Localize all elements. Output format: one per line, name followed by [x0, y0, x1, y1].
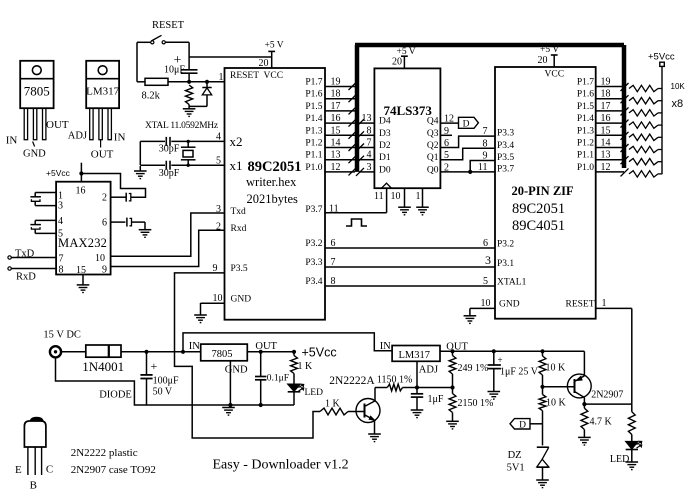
bus wire (thick) vertical left at x=357 — [355, 45, 360, 172]
svg-text:P3.1: P3.1 — [497, 259, 514, 269]
svg-text:4: 4 — [216, 132, 221, 143]
svg-text:74LS373: 74LS373 — [384, 103, 433, 118]
svg-text:ADJ: ADJ — [68, 130, 87, 141]
svg-text:RxD: RxD — [16, 272, 36, 283]
ground rail wire — [230, 404, 294, 406]
capacitor 0.1uF — [260, 352, 262, 377]
svg-text:P1.0: P1.0 — [577, 163, 594, 173]
svg-text:P1.6: P1.6 — [577, 90, 594, 100]
svg-text:P1.3: P1.3 — [305, 126, 322, 136]
svg-text:VCC: VCC — [264, 71, 284, 81]
wire xtal left leg — [139, 141, 141, 165]
wire Q2 to ZIF pin 7 (P3.3) — [440, 136, 495, 147]
svg-text:Q0: Q0 — [427, 165, 439, 175]
svg-text:Rxd: Rxd — [231, 224, 247, 234]
resistor 10K #2 (pull-up) — [629, 98, 658, 104]
wire reset loop left — [136, 42, 138, 82]
svg-text:OUT: OUT — [255, 341, 277, 352]
wire Q0 to ZIF pin 11 (P3.7) — [440, 171, 495, 173]
wire return path (0V) from jack — [56, 357, 231, 405]
bus wire (thick) horizontal top — [355, 43, 624, 48]
ground (reset) — [183, 108, 196, 110]
svg-text:11: 11 — [478, 162, 488, 173]
svg-text:Q2: Q2 — [427, 141, 439, 151]
svg-text:DZ: DZ — [508, 450, 522, 461]
resistor 2150 1% — [449, 394, 456, 413]
wire ADJ node — [417, 387, 453, 389]
DC input jack — [50, 346, 61, 357]
wire zener column — [542, 411, 544, 446]
svg-text:2: 2 — [102, 193, 107, 204]
svg-text:LED: LED — [610, 454, 629, 465]
svg-text:7805: 7805 — [24, 84, 50, 99]
svg-text:1μF: 1μF — [428, 394, 444, 405]
wire pull-up rail vertical — [661, 66, 663, 174]
svg-text:P1.2: P1.2 — [305, 139, 322, 149]
svg-text:P3.4: P3.4 — [305, 277, 322, 287]
svg-text:RESET: RESET — [566, 300, 595, 310]
svg-text:LM317: LM317 — [399, 350, 431, 361]
svg-text:C: C — [46, 464, 53, 476]
svg-text:89C4051: 89C4051 — [512, 218, 565, 234]
svg-text:DIODE: DIODE — [99, 390, 132, 401]
svg-text:x1: x1 — [230, 158, 243, 173]
svg-text:2N2222A: 2N2222A — [329, 375, 375, 387]
svg-text:D4: D4 — [379, 117, 391, 127]
svg-text:IN: IN — [6, 134, 18, 146]
crystal 11.0592MHz — [187, 141, 189, 147]
svg-text:P3.7: P3.7 — [305, 205, 322, 215]
net tag D (VPP control from 74LS373) — [510, 419, 530, 429]
svg-text:30pF: 30pF — [159, 144, 180, 155]
svg-text:Q4: Q4 — [427, 117, 439, 127]
regulator package LM317 (TO-220 drawing) — [86, 61, 119, 108]
svg-text:P1.5: P1.5 — [305, 102, 322, 112]
svg-text:6: 6 — [102, 218, 107, 229]
junction node reset — [187, 80, 191, 84]
resistor 10K #5 (pull-up) — [629, 134, 658, 140]
svg-text:11: 11 — [374, 191, 384, 202]
LED (programming indicator) — [626, 442, 638, 450]
wire +5V branch to VCC pin 20 — [189, 56, 272, 58]
resistor (box) in series with reset pin — [137, 81, 145, 83]
svg-text:P3.3: P3.3 — [497, 129, 514, 139]
wire pin16 power stub — [80, 163, 82, 182]
resistor 10 K (upper) — [542, 351, 544, 356]
capacitor 30pF (bottom) — [165, 161, 167, 170]
svg-text:100μF: 100μF — [153, 376, 179, 387]
svg-text:MAX232: MAX232 — [58, 236, 107, 250]
svg-text:P3.2: P3.2 — [497, 240, 514, 250]
svg-text:P1.3: P1.3 — [577, 126, 594, 136]
wire to 2N2222A collector — [374, 388, 376, 401]
svg-text:2N2222 plastic: 2N2222 plastic — [71, 447, 138, 459]
svg-text:Q1: Q1 — [427, 153, 439, 163]
ground (2N2222A) — [368, 433, 381, 435]
svg-text:1μF 25 V: 1μF 25 V — [500, 367, 539, 378]
wire branch to ZIF pin 9 (P3.5) — [470, 161, 495, 172]
svg-text:8: 8 — [483, 138, 488, 149]
svg-text:Q3: Q3 — [427, 129, 439, 139]
resistor 10K #1 (pull-up) — [629, 85, 658, 91]
svg-text:GND: GND — [499, 300, 520, 310]
svg-text:E: E — [15, 464, 22, 476]
resistor 10K #4 (pull-up) — [629, 122, 658, 128]
svg-text:Easy - Downloader v1.2: Easy - Downloader v1.2 — [213, 458, 349, 473]
wire base 2N2907 — [543, 386, 575, 388]
svg-text:GND: GND — [225, 365, 248, 376]
wire x2 pin 4 — [140, 140, 165, 142]
bus wire (thick) vertical right at x=624 — [622, 45, 627, 168]
op-amp: none; IC U1 89C2051 box — [225, 68, 326, 320]
ground (1uF ADJ) — [411, 409, 424, 411]
wire ZIF GND to ground — [470, 307, 495, 309]
wire 2N2222A emitter to ground — [374, 420, 376, 434]
svg-text:Txd: Txd — [231, 207, 247, 217]
svg-text:15 V DC: 15 V DC — [43, 330, 81, 341]
svg-text:9: 9 — [483, 151, 488, 162]
resistor 10K #8 (pull-up) — [629, 171, 658, 177]
pin 4/5 loop capacitor (MAX232) — [35, 219, 56, 221]
clock triangle (U2 latch enable) — [382, 183, 392, 188]
resistor 10K #3 (pull-up) — [629, 110, 658, 116]
svg-text:VCC: VCC — [545, 70, 565, 80]
wire Q1 to ZIF pin 8 (P3.4) — [440, 148, 495, 159]
svg-text:249 1%: 249 1% — [458, 363, 489, 374]
regulator package 7805 (TO-220 drawing) — [20, 61, 53, 108]
svg-text:IN: IN — [380, 341, 391, 352]
svg-text:B: B — [30, 480, 37, 492]
svg-text:LM317: LM317 — [86, 86, 120, 98]
ground (LED2) — [626, 461, 639, 463]
wire jack to diode — [62, 351, 86, 353]
wire diode to regulators — [121, 351, 201, 353]
svg-text:50 V: 50 V — [153, 387, 173, 398]
wire 7805 OUT to +5Vcc node — [247, 351, 294, 353]
svg-text:OUT: OUT — [46, 119, 69, 131]
svg-text:1N4001: 1N4001 — [82, 359, 124, 374]
svg-text:P1.5: P1.5 — [577, 102, 594, 112]
wire switch to cap — [188, 42, 190, 70]
svg-text:RESET: RESET — [152, 20, 185, 31]
svg-text:LED: LED — [305, 388, 324, 398]
svg-text:P1.7: P1.7 — [577, 78, 594, 88]
net tag D (to VPP control) — [459, 117, 479, 128]
svg-text:10: 10 — [481, 298, 491, 309]
wire +5Vcc to pin2 capacitor — [81, 174, 145, 198]
ground (xtal) — [139, 166, 141, 171]
switch RESET (push button) — [137, 41, 151, 43]
svg-text:2N2907: 2N2907 — [591, 390, 623, 401]
svg-text:1 K: 1 K — [325, 399, 341, 410]
svg-text:0.1μF: 0.1μF — [267, 374, 289, 384]
wire ADJ pin — [416, 361, 418, 387]
wire ZIF RESET to transistor collector node — [596, 307, 632, 309]
IC 20-PIN ZIF socket box — [495, 67, 596, 319]
svg-text:7: 7 — [59, 254, 64, 265]
svg-text:x8: x8 — [672, 98, 684, 110]
svg-text:P3.5: P3.5 — [497, 153, 514, 163]
resistor 10K #6 (pull-up) — [629, 146, 658, 152]
svg-text:1: 1 — [219, 72, 224, 83]
svg-text:8: 8 — [59, 265, 64, 276]
svg-text:+5Vcc: +5Vcc — [302, 346, 337, 360]
resistor 1K (LED series) — [293, 352, 295, 356]
wire U1 P3.5 to 2N2222 base resistor — [175, 273, 321, 438]
svg-text:5: 5 — [216, 155, 221, 166]
LED (power indicator) — [293, 374, 295, 385]
svg-text:16: 16 — [76, 186, 86, 197]
capacitor (MAX232 pin6) with ground — [111, 221, 126, 223]
svg-text:P1.4: P1.4 — [305, 114, 322, 124]
svg-text:20: 20 — [259, 58, 269, 69]
junction on Q0 wire — [468, 170, 472, 174]
svg-text:OUT: OUT — [91, 149, 114, 161]
resistor 10 K (lower) — [539, 395, 546, 411]
svg-text:10K: 10K — [671, 82, 686, 91]
label OUT (LM317) — [100, 140, 102, 148]
svg-text:P1.7: P1.7 — [305, 78, 322, 88]
svg-text:+5 V: +5 V — [265, 41, 284, 51]
svg-text:RESET: RESET — [230, 71, 259, 81]
svg-text:3: 3 — [58, 201, 63, 212]
svg-text:20: 20 — [392, 57, 402, 68]
ground (U1) — [200, 303, 202, 315]
svg-text:XTAL1: XTAL1 — [497, 278, 527, 288]
ground (main rail) — [222, 407, 235, 409]
ground (2150) — [446, 420, 459, 422]
svg-text:+: + — [151, 359, 158, 373]
svg-text:89C2051: 89C2051 — [512, 201, 565, 217]
svg-text:2021bytes: 2021bytes — [247, 192, 299, 206]
wire P3.7 to 74LS373 pin 11 — [325, 212, 387, 214]
svg-text:9: 9 — [102, 265, 107, 276]
IC U2 74LS373 box — [374, 68, 440, 188]
svg-text:15: 15 — [76, 265, 86, 276]
svg-text:20: 20 — [538, 55, 548, 66]
wire 15V rail up to LM317 — [183, 333, 392, 352]
svg-text:writer.hex: writer.hex — [246, 175, 297, 189]
svg-text:ADJ: ADJ — [419, 365, 438, 376]
svg-text:P3.7: P3.7 — [497, 164, 514, 174]
svg-text:10: 10 — [391, 191, 401, 202]
svg-text:30pF: 30pF — [159, 168, 180, 179]
resistor 249 1% — [452, 351, 454, 355]
wire Q3 stub (pin 9) — [440, 134, 452, 136]
svg-text:1: 1 — [602, 298, 607, 309]
svg-text:IN: IN — [114, 132, 126, 144]
wire Q4 to net tag D — [440, 122, 458, 124]
svg-text:D0: D0 — [379, 165, 391, 175]
svg-text:P1.4: P1.4 — [577, 114, 594, 124]
ground (ZIF) — [469, 308, 471, 315]
resistor 4.7 K — [581, 408, 588, 429]
svg-text:5V1: 5V1 — [507, 463, 525, 474]
svg-text:2150 1%: 2150 1% — [458, 398, 494, 409]
svg-text:IN: IN — [189, 341, 200, 352]
svg-text:P1.0: P1.0 — [305, 163, 322, 173]
svg-text:4: 4 — [58, 216, 63, 227]
svg-text:D: D — [519, 421, 526, 431]
diode 1N4001 (box style) — [86, 345, 121, 357]
svg-text:P3.4: P3.4 — [497, 141, 514, 151]
svg-text:1 K: 1 K — [298, 361, 314, 372]
svg-text:7: 7 — [483, 126, 488, 137]
svg-text:P1.1: P1.1 — [577, 151, 594, 161]
wire x1 pin 5 — [140, 164, 165, 166]
svg-text:P3.3: P3.3 — [305, 258, 322, 268]
svg-text:3: 3 — [485, 253, 491, 267]
svg-text:6: 6 — [483, 238, 488, 249]
svg-text:GND: GND — [231, 295, 252, 305]
ground (4.7K) — [578, 436, 591, 438]
svg-text:GND: GND — [23, 149, 46, 160]
wire LM317 OUT rail — [440, 350, 584, 352]
svg-text:10: 10 — [95, 253, 105, 264]
capacitor (MAX232 pin2 charge pump) — [125, 193, 127, 202]
svg-text:+5Vcc: +5Vcc — [648, 52, 675, 63]
svg-text:7805: 7805 — [212, 349, 233, 360]
ground (1uF 25V) — [488, 391, 501, 393]
svg-text:D3: D3 — [379, 129, 391, 139]
svg-text:D1: D1 — [379, 153, 391, 163]
svg-text:D: D — [463, 120, 470, 130]
svg-text:4.7 K: 4.7 K — [590, 417, 613, 428]
svg-text:5: 5 — [483, 276, 488, 287]
svg-text:2N2907 case TO92: 2N2907 case TO92 — [71, 464, 156, 476]
svg-text:1150 1%: 1150 1% — [377, 374, 412, 385]
diode (reset discharge) — [206, 82, 208, 88]
svg-text:+5 V: +5 V — [540, 45, 559, 55]
svg-text:x2: x2 — [230, 134, 243, 149]
IC MAX232 box — [56, 182, 111, 275]
svg-text:10 K: 10 K — [546, 363, 567, 374]
capacitor 1uF 25 V — [493, 351, 495, 365]
transistor package TO-92 drawing — [24, 421, 46, 447]
svg-text:+: + — [498, 355, 503, 365]
svg-text:P1.2: P1.2 — [577, 139, 594, 149]
wire collector node to RESET/LED branch — [584, 403, 631, 405]
svg-text:10 K: 10 K — [546, 398, 567, 409]
svg-text:P1.6: P1.6 — [305, 90, 322, 100]
svg-text:5: 5 — [58, 229, 63, 240]
svg-text:89C2051: 89C2051 — [248, 159, 302, 175]
label GND (7805) — [33, 142, 35, 147]
svg-text:P3.5: P3.5 — [231, 264, 248, 274]
capacitor 100uF 50V — [146, 352, 148, 375]
svg-text:8.2k: 8.2k — [142, 91, 161, 102]
wire U1 GND pin 10 — [201, 302, 225, 304]
svg-text:D2: D2 — [379, 141, 391, 151]
svg-text:XTAL 11.0592MHz: XTAL 11.0592MHz — [145, 121, 218, 131]
svg-text:1: 1 — [416, 191, 421, 202]
regulator LM317 box — [392, 346, 440, 362]
capacitor 30pF (top) — [165, 137, 167, 146]
capacitor 1uF (ADJ) — [416, 388, 418, 394]
resistor (LED2 series) — [628, 412, 635, 435]
svg-text:+5Vcc: +5Vcc — [46, 168, 71, 178]
pulse symbol (clock on P3.7) — [346, 219, 367, 226]
svg-text:20-PIN ZIF: 20-PIN ZIF — [512, 184, 575, 198]
resistor 10K #7 (pull-up) — [629, 159, 658, 165]
svg-text:P3.2: P3.2 — [305, 239, 322, 249]
pin 1/3 loop capacitor (MAX232) — [35, 192, 56, 194]
ground (zener) — [536, 479, 549, 481]
wire collector 2N2907 — [575, 392, 585, 398]
svg-text:10: 10 — [213, 293, 223, 304]
svg-text:P1.1: P1.1 — [305, 151, 322, 161]
wire emitter from +V rail — [583, 351, 585, 376]
